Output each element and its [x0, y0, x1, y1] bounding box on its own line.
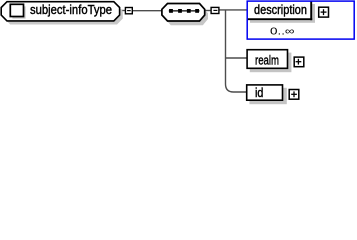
- svg-text:0..∞: 0..∞: [270, 26, 295, 38]
- svg-text:realm: realm: [255, 53, 279, 67]
- svg-text:description: description: [254, 3, 307, 17]
- svg-text:id: id: [255, 86, 263, 100]
- svg-text:subject-infoType: subject-infoType: [30, 3, 112, 17]
